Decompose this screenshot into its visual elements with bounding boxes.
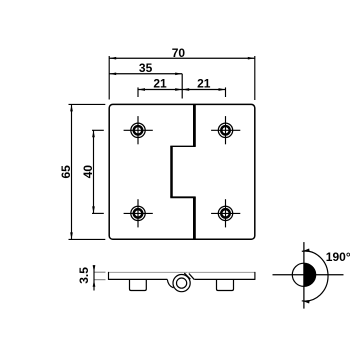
dimension 35 line <box>109 73 182 75</box>
hinge joint divider upper step <box>170 145 195 147</box>
dimension 3.5 line <box>93 265 95 291</box>
hole top-right <box>211 116 240 144</box>
hinge joint divider lower thick segment <box>193 197 196 239</box>
extension line bottom hole row left side <box>92 212 104 214</box>
hole top-left <box>124 116 153 144</box>
svg-text:3.5: 3.5 <box>77 267 91 284</box>
extension line side view bottom <box>94 279 106 281</box>
hinge joint divider upper thick segment <box>193 104 196 146</box>
hinge joint divider left vertical <box>170 146 173 197</box>
extension line center top <box>181 74 183 99</box>
extension line side view top <box>94 271 106 273</box>
side view left screw tab <box>130 279 147 290</box>
svg-text:190°: 190° <box>326 250 350 264</box>
dimension 21 left line <box>138 89 182 91</box>
dimension 40 line <box>93 130 95 213</box>
dimension 65 line <box>71 104 73 239</box>
svg-text:40: 40 <box>81 165 95 179</box>
side view right end edge <box>254 272 256 280</box>
opening angle symbol crosshair vertical <box>303 242 305 309</box>
hinge joint divider lower step <box>170 196 195 198</box>
hole bottom-left <box>124 199 153 227</box>
opening angle symbol circle <box>292 263 315 286</box>
side view right screw tab <box>217 279 234 290</box>
knuckle inner circle <box>177 278 187 288</box>
svg-text:21: 21 <box>153 77 167 91</box>
dimension 70 line <box>109 57 255 59</box>
svg-text:35: 35 <box>139 61 153 75</box>
extension line plate left top <box>108 56 110 100</box>
side view left end edge <box>108 272 110 280</box>
svg-text:21: 21 <box>197 77 211 91</box>
extension line plate top left side <box>69 103 106 105</box>
extension line top hole row left side <box>92 129 104 131</box>
opening angle symbol filled half <box>303 263 317 286</box>
svg-text:70: 70 <box>172 46 186 60</box>
extension line plate bottom left side <box>69 238 106 240</box>
extension line plate right top <box>254 56 256 100</box>
plate outline (top view of hinge, 70x65) <box>109 104 255 239</box>
opening angle symbol crosshair horizontal <box>273 274 344 276</box>
svg-text:65: 65 <box>59 165 73 179</box>
hole bottom-right <box>211 199 240 227</box>
knuckle wrap slant lines <box>184 273 190 279</box>
dimension 21 right line <box>182 89 225 91</box>
opening angle arc 190 degrees <box>302 251 328 301</box>
side view top edge <box>109 271 255 273</box>
extension line left hole top <box>137 87 139 97</box>
knuckle fillet left <box>167 279 173 287</box>
side view bottom edge segments <box>109 278 255 280</box>
knuckle wrap gap <box>187 273 193 279</box>
knuckle outer circle <box>173 275 190 292</box>
extension line right hole top <box>225 87 227 97</box>
